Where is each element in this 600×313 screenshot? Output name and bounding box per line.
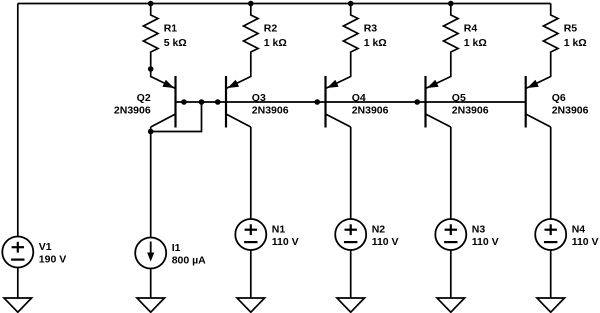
node base rail junction (Q3 base pin) bbox=[215, 99, 221, 105]
resistor R4 1 kohm bbox=[444, 4, 487, 70]
svg-text:110 V: 110 V bbox=[572, 236, 599, 248]
svg-text:N3: N3 bbox=[472, 224, 486, 236]
resistor R1 5 kohm bbox=[143, 4, 186, 70]
svg-text:R4: R4 bbox=[464, 23, 478, 35]
node base rail junction (Q5 base pin) bbox=[414, 99, 420, 105]
svg-text:110 V: 110 V bbox=[272, 236, 299, 248]
node base rail junction (Q4 base pin) bbox=[314, 99, 320, 105]
node top rail junction at R1 bbox=[148, 1, 154, 7]
node top rail junction at R4 bbox=[448, 1, 454, 7]
svg-text:1 kΩ: 1 kΩ bbox=[364, 37, 387, 49]
svg-text:I1: I1 bbox=[172, 242, 181, 254]
svg-text:Q2: Q2 bbox=[137, 92, 151, 104]
wire N1 bottom to ground bbox=[250, 250, 252, 298]
ground (N2) bbox=[337, 298, 365, 312]
resistor R5 1 kohm bbox=[543, 4, 586, 70]
voltage source N1 110 V bbox=[235, 219, 298, 250]
svg-text:1 kΩ: 1 kΩ bbox=[564, 37, 587, 49]
wire Q2 collector to I1 bbox=[150, 127, 152, 237]
transistor Q3 2N3906 (PNP) bbox=[226, 69, 289, 128]
voltage source N2 110 V bbox=[335, 219, 398, 250]
transistor Q6 2N3906 (PNP) bbox=[526, 69, 589, 128]
resistor R2 1 kohm bbox=[244, 4, 287, 70]
svg-text:5 kΩ: 5 kΩ bbox=[164, 37, 187, 49]
svg-text:N1: N1 bbox=[272, 224, 286, 236]
wire base rail Q2..Q6 bbox=[176, 101, 526, 103]
wire V1 bottom to ground bbox=[17, 268, 19, 299]
node base rail junction (Q2 base pin) bbox=[181, 99, 187, 105]
voltage source N4 110 V bbox=[535, 219, 598, 250]
wire top supply rail bbox=[18, 3, 551, 5]
svg-text:1 kΩ: 1 kΩ bbox=[264, 37, 287, 49]
svg-text:R1: R1 bbox=[164, 23, 178, 35]
svg-text:R3: R3 bbox=[364, 23, 378, 35]
svg-text:Q6: Q6 bbox=[552, 92, 566, 104]
wire V1 top to rail bbox=[17, 4, 19, 237]
svg-text:2N3906: 2N3906 bbox=[252, 104, 289, 116]
wire Q4 collector to N2 bbox=[350, 127, 352, 219]
ground (N1) bbox=[237, 298, 265, 312]
svg-text:N2: N2 bbox=[372, 224, 386, 236]
ground (N4) bbox=[537, 298, 565, 312]
svg-text:Q3: Q3 bbox=[252, 92, 266, 104]
node top rail junction at R2 bbox=[248, 1, 254, 7]
svg-text:110 V: 110 V bbox=[472, 236, 499, 248]
voltage source V1 190 V bbox=[2, 237, 66, 268]
svg-text:2N3906: 2N3906 bbox=[114, 104, 151, 116]
ground (V1) bbox=[4, 298, 32, 312]
wire N3 bottom to ground bbox=[450, 250, 452, 298]
svg-text:V1: V1 bbox=[39, 241, 52, 253]
svg-text:2N3906: 2N3906 bbox=[552, 104, 589, 116]
wire Q3 collector to N1 bbox=[250, 127, 252, 219]
ground (I1) bbox=[137, 298, 165, 312]
svg-text:R2: R2 bbox=[264, 23, 278, 35]
svg-text:R5: R5 bbox=[564, 23, 578, 35]
node base rail junction (feedback tap) bbox=[199, 99, 205, 105]
wire N2 bottom to ground bbox=[350, 250, 352, 298]
svg-text:2N3906: 2N3906 bbox=[452, 104, 489, 116]
node Q2 collector junction bbox=[148, 129, 154, 135]
svg-text:Q5: Q5 bbox=[452, 92, 466, 104]
ground (N3) bbox=[437, 298, 465, 312]
node top rail junction at R3 bbox=[348, 1, 354, 7]
wire Q6 collector to N4 bbox=[550, 127, 552, 219]
wire N4 bottom to ground bbox=[550, 250, 552, 298]
resistor R3 1 kohm bbox=[343, 4, 386, 70]
svg-text:110 V: 110 V bbox=[372, 236, 399, 248]
voltage source N3 110 V bbox=[435, 219, 498, 250]
svg-text:N4: N4 bbox=[572, 224, 586, 236]
node R1 bottom junction bbox=[148, 66, 154, 72]
wire Q2 collector-to-base feedback bbox=[151, 102, 202, 132]
current source I1 800 uA bbox=[135, 238, 206, 269]
svg-text:800 µA: 800 µA bbox=[172, 255, 206, 267]
svg-text:Q4: Q4 bbox=[352, 92, 366, 104]
transistor Q5 2N3906 (PNP) bbox=[426, 69, 489, 128]
wire I1 bottom to ground bbox=[150, 269, 152, 299]
svg-text:2N3906: 2N3906 bbox=[352, 104, 389, 116]
svg-text:190 V: 190 V bbox=[39, 254, 66, 266]
wire Q5 collector to N3 bbox=[450, 127, 452, 219]
svg-text:1 kΩ: 1 kΩ bbox=[464, 37, 487, 49]
transistor Q4 2N3906 (PNP) bbox=[326, 69, 389, 128]
transistor Q2 2N3906 (PNP) bbox=[114, 69, 176, 128]
